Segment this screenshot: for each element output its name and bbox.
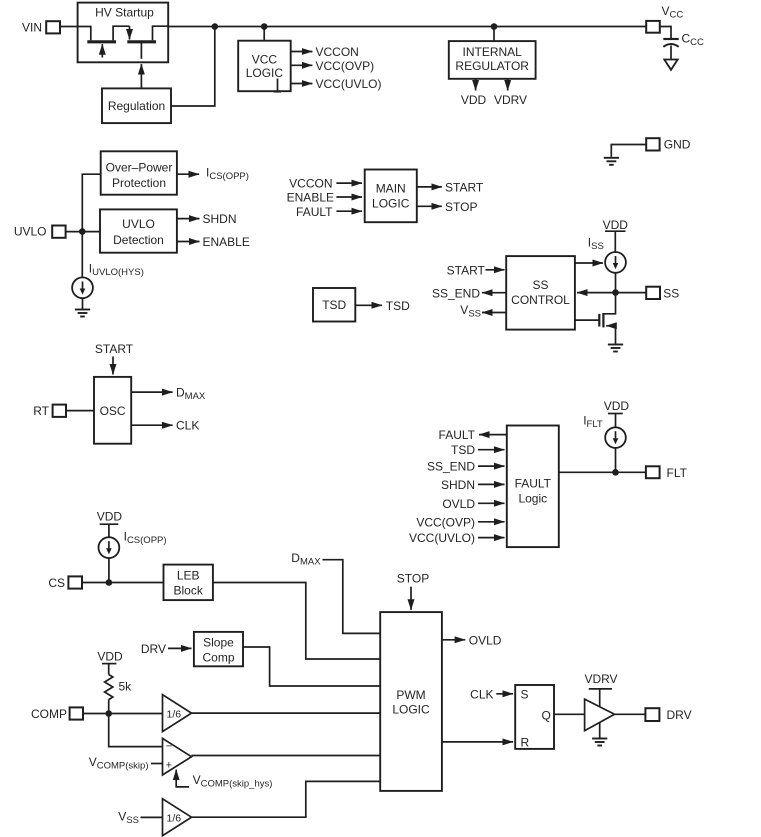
junction UVLO node (79, 228, 86, 235)
block INTERNAL REGULATOR (449, 41, 536, 79)
svg-text:TSD: TSD (451, 443, 475, 457)
arrow ICS(OPP) out (177, 166, 249, 183)
capacitor Ccc (663, 32, 704, 59)
svg-text:VCC(UVLO): VCC(UVLO) (409, 531, 475, 545)
svg-text:VDRV: VDRV (494, 93, 527, 107)
artifact tick below VCC LOGIC (274, 79, 282, 93)
pin CS (48, 576, 82, 590)
ground symbol at GND (604, 158, 619, 165)
arrow Regulation to HV Startup (140, 64, 142, 88)
wire rail to VCC LOGIC (263, 27, 265, 41)
svg-text:DRV: DRV (667, 708, 692, 722)
svg-text:VIN: VIN (22, 21, 42, 35)
svg-text:HV Startup: HV Startup (95, 6, 154, 20)
svg-text:VSS: VSS (460, 303, 481, 320)
block Over-Power Protection (101, 151, 177, 194)
wire COMP node down to skip comparator (109, 714, 163, 747)
svg-text:INTERNAL: INTERNAL (463, 45, 523, 59)
pin FLT (646, 466, 688, 480)
block HV Startup (78, 3, 169, 63)
wire VSS comparator to PWM LOGIC (192, 781, 381, 817)
ground symbol below M1 (608, 345, 623, 352)
block Regulation (102, 88, 171, 123)
svg-text:VDRV: VDRV (584, 672, 617, 686)
arrow SS CONTROL to ISS current source (575, 262, 603, 264)
svg-text:FAULT: FAULT (439, 428, 476, 442)
svg-text:VDD: VDD (461, 93, 487, 107)
svg-text:STOP: STOP (445, 200, 477, 214)
wire top rail VCC (168, 26, 646, 28)
comparator 1/6 (COMP divider) (163, 695, 192, 732)
current source IUVLO(HYS) (72, 277, 93, 298)
svg-text:VDD: VDD (604, 399, 630, 413)
svg-text:SS_END: SS_END (432, 286, 480, 300)
svg-text:1/6: 1/6 (167, 812, 182, 824)
svg-text:Q: Q (542, 708, 551, 722)
comparator 1/6 (VSS) (163, 799, 192, 836)
svg-text:VCC: VCC (662, 4, 684, 21)
svg-text:CS: CS (48, 576, 65, 590)
label + arrow START into SS CONTROL (447, 263, 505, 277)
wire Slope Comp to PWM LOGIC (243, 647, 380, 686)
wire DMAX net to PWM LOGIC (323, 560, 381, 634)
wire comparator to PWM LOGIC (192, 712, 381, 714)
svg-text:COMP: COMP (31, 707, 67, 721)
wire GND pin to ground (611, 145, 646, 157)
ground symbol below IUVLO(HYS) (75, 310, 90, 317)
arrow VCCON (291, 45, 359, 59)
arrow CLK out of OSC (131, 419, 199, 433)
pin GND (646, 138, 691, 152)
svg-text:ICS(OPP): ICS(OPP) (124, 530, 167, 547)
arrow DMAX out of OSC (131, 386, 206, 403)
svg-text:Comp: Comp (202, 651, 234, 665)
wire SS node to SS pin (616, 292, 647, 294)
wire rail to internal regulator (493, 27, 495, 42)
wire UVLO pin to UVLO Detection (66, 231, 100, 233)
svg-text:GND: GND (664, 138, 691, 152)
wire IFLT to FLT net (615, 448, 617, 472)
svg-text:VCC: VCC (252, 53, 278, 67)
wire VCOMP(skip) to + input (151, 763, 163, 765)
svg-text:STOP: STOP (397, 572, 429, 586)
svg-text:START: START (445, 180, 484, 194)
transistor M1 (SS discharge NMOS) (599, 293, 615, 344)
label + arrow TSD into FAULT Logic (451, 443, 505, 457)
svg-text:ENABLE: ENABLE (203, 235, 250, 249)
svg-text:UVLO: UVLO (122, 217, 155, 231)
svg-text:ICS(OPP): ICS(OPP) (206, 166, 249, 183)
label + arrow FAULT into MAIN LOGIC (296, 205, 362, 219)
svg-text:VDD: VDD (97, 510, 123, 524)
VDRV supply above driver (584, 672, 617, 707)
svg-text:LOGIC: LOGIC (372, 197, 410, 211)
label + arrow OVLD into FAULT Logic (442, 497, 504, 511)
svg-text:DMAX: DMAX (291, 551, 321, 568)
svg-text:VCCON: VCCON (316, 45, 359, 59)
svg-text:R: R (521, 735, 530, 749)
svg-text:DRV: DRV (141, 642, 166, 656)
current source IFLT (605, 427, 626, 448)
svg-text:VCC(UVLO): VCC(UVLO) (316, 77, 382, 91)
svg-text:VCOMP(skip): VCOMP(skip) (89, 755, 149, 772)
pin UVLO (14, 225, 66, 239)
svg-text:REGULATOR: REGULATOR (455, 59, 529, 73)
arrow ENABLE out (177, 235, 250, 249)
junction rail / VCC LOGIC (261, 23, 268, 30)
svg-text:DMAX: DMAX (176, 386, 206, 403)
arrow SS node into SS CONTROL (577, 292, 616, 294)
wire RT to OSC (66, 410, 94, 412)
arrow VCC(OVP) (291, 59, 374, 73)
wire skip comparator to PWM LOGIC (192, 755, 381, 757)
arrow VDD out of regulator (461, 79, 487, 107)
label + arrow VCC(OVP) into FAULT Logic (416, 515, 504, 529)
svg-text:Detection: Detection (113, 233, 164, 247)
svg-text:VDD: VDD (97, 650, 123, 664)
arrow START out of MAIN LOGIC (417, 180, 484, 194)
junction rail / internal regulator (491, 23, 498, 30)
svg-text:TSD: TSD (386, 299, 410, 313)
wire ICS(OPP) to CS node (108, 558, 110, 583)
svg-text:Over–Power: Over–Power (106, 161, 173, 175)
wire 5k to COMP node (108, 700, 110, 714)
VDD supply above IFLT (604, 399, 630, 427)
block FAULT Logic (507, 426, 559, 548)
arrow STOP into PWM LOGIC (410, 587, 412, 610)
current source ISS (605, 252, 626, 273)
label + arrow DRV into Slope Comp (141, 642, 192, 656)
arrow START into OSC (112, 357, 114, 375)
pin RT (33, 404, 66, 418)
block LEB Block (164, 565, 213, 601)
svg-text:FAULT: FAULT (296, 205, 333, 219)
transistor Q2 (HV startup JFET) (127, 26, 168, 59)
pin VCC (646, 4, 683, 33)
wire Regulation to rail (171, 27, 215, 107)
svg-text:START: START (447, 263, 486, 277)
svg-text:LOGIC: LOGIC (392, 703, 430, 717)
junction COMP node (105, 710, 112, 717)
VDD supply above ICS(OPP) (97, 510, 123, 538)
arrow SHDN out (177, 212, 237, 226)
svg-text:Block: Block (174, 584, 204, 598)
svg-text:CLK: CLK (176, 419, 199, 433)
wire driver to DRV pin (615, 713, 646, 715)
ground (hollow triangle) below Ccc (664, 60, 677, 70)
svg-text:CLK: CLK (470, 687, 493, 701)
pin VIN (22, 21, 60, 35)
wire COMP pin to comparator (83, 713, 163, 715)
label + arrow SS_END into FAULT Logic (427, 460, 505, 474)
current source ICS(OPP) (99, 537, 120, 558)
svg-text:Regulation: Regulation (108, 99, 165, 113)
svg-text:VSS: VSS (118, 810, 139, 827)
svg-text:VCC(OVP): VCC(OVP) (316, 59, 375, 73)
svg-text:VDD: VDD (603, 218, 629, 232)
svg-text:OVLD: OVLD (442, 497, 475, 511)
svg-text:UVLO: UVLO (14, 225, 47, 239)
block VCC LOGIC (238, 41, 291, 91)
svg-text:+: + (166, 760, 172, 772)
arrow STOP out of MAIN LOGIC (417, 200, 478, 214)
VDD supply above ISS (603, 218, 629, 252)
svg-text:RT: RT (33, 404, 49, 418)
wire current source to ground (82, 298, 84, 309)
ground symbol below driver (592, 739, 607, 746)
pin DRV (645, 708, 691, 722)
label + arrow ENABLE into MAIN LOGIC (287, 191, 362, 205)
svg-text:SHDN: SHDN (203, 212, 237, 226)
block MAIN LOGIC (365, 170, 417, 223)
label + arrow CLK into S input (470, 687, 513, 701)
svg-text:CCC: CCC (682, 32, 705, 49)
wire VSS to comparator (141, 816, 163, 818)
svg-text:LEB: LEB (177, 569, 200, 583)
svg-text:FAULT: FAULT (515, 477, 552, 491)
arrow SS_END out of SS CONTROL (432, 286, 506, 300)
svg-text:VCOMP(skip_hys): VCOMP(skip_hys) (193, 773, 273, 790)
arrow TSD out (355, 299, 410, 313)
svg-text:OVLD: OVLD (469, 633, 502, 647)
svg-text:CONTROL: CONTROL (511, 293, 570, 307)
svg-text:Slope: Slope (203, 636, 234, 650)
block SS CONTROL (506, 256, 575, 330)
svg-text:IFLT: IFLT (583, 414, 603, 431)
svg-text:SS: SS (532, 278, 548, 292)
wire driver to ground (599, 723, 601, 739)
wire gate SS CONTROL to transistor (575, 319, 599, 321)
label + arrow VCCON into MAIN LOGIC (289, 177, 362, 191)
svg-text:LOGIC: LOGIC (246, 66, 284, 80)
junction FLT net (612, 469, 619, 476)
svg-text:TSD: TSD (322, 298, 346, 312)
VDD supply above 5k (97, 650, 123, 675)
svg-text:VCC(OVP): VCC(OVP) (416, 515, 475, 529)
svg-text:OSC: OSC (100, 404, 126, 418)
latch SR (515, 685, 554, 749)
comparator skip (163, 738, 192, 775)
junction CS node (106, 579, 113, 586)
block UVLO Detection (100, 209, 177, 252)
svg-text:ISS: ISS (588, 236, 604, 253)
svg-text:SHDN: SHDN (441, 478, 475, 492)
arrow VCC(UVLO) (291, 77, 382, 91)
arrow OVLD out of PWM LOGIC (442, 633, 502, 647)
wire CS to LEB Block (82, 582, 164, 584)
pin COMP (31, 707, 83, 721)
block OSC (94, 377, 131, 444)
svg-text:VCCON: VCCON (289, 177, 332, 191)
wire FAULT Logic to FLT pin (559, 471, 646, 473)
svg-text:FLT: FLT (667, 466, 688, 480)
junction rail / regulation riser (212, 23, 219, 30)
driver buffer (585, 699, 615, 731)
resistor 5k (105, 675, 133, 700)
svg-text:−: − (166, 741, 172, 753)
junction SS node (612, 289, 619, 296)
wire + arrow PWM LOGIC to R input (442, 741, 513, 743)
wire Q to driver (554, 713, 585, 715)
svg-text:Protection: Protection (112, 176, 166, 190)
wire VCC pin to capacitor (660, 27, 671, 39)
block Slope Comp (194, 632, 243, 666)
svg-text:SS_END: SS_END (427, 460, 475, 474)
svg-text:START: START (95, 342, 134, 356)
arrow VDRV out of regulator (494, 79, 527, 107)
svg-text:ENABLE: ENABLE (287, 191, 334, 205)
wire VIN to HV Startup (60, 26, 78, 28)
wire UVLO node down to current source (81, 232, 83, 278)
svg-text:S: S (521, 687, 529, 701)
svg-text:MAIN: MAIN (376, 182, 406, 196)
block TSD (313, 288, 355, 322)
label + arrow SHDN into FAULT Logic (441, 478, 505, 492)
wire ISS to SS node (615, 273, 617, 293)
svg-text:PWM: PWM (396, 688, 425, 702)
wire LEB Block to PWM LOGIC (213, 583, 380, 660)
transistor Q1 (HV startup JFET) (78, 26, 130, 57)
arrow VCOMP(skip_hys) (176, 770, 189, 787)
wire UVLO node up to Over-Power Protection (82, 174, 100, 231)
arrow FAULT out of FAULT Logic (439, 428, 507, 442)
arrow VSS out of SS CONTROL (460, 303, 506, 320)
label + arrow VCC(UVLO) into FAULT Logic (409, 531, 505, 545)
svg-text:IUVLO(HYS): IUVLO(HYS) (89, 262, 144, 279)
block PWM LOGIC (380, 612, 442, 791)
pin SS (646, 286, 679, 300)
svg-text:1/6: 1/6 (167, 708, 182, 720)
svg-text:SS: SS (663, 286, 679, 300)
svg-text:5k: 5k (119, 680, 133, 694)
svg-text:Logic: Logic (518, 492, 547, 506)
